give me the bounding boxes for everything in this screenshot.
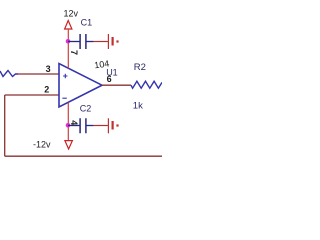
svg-text:C2: C2	[80, 103, 92, 113]
junction node bottom	[66, 123, 71, 128]
capacitor C1 left lead	[68, 41, 80, 43]
power +12v symbol triangle	[65, 21, 72, 30]
junction node top	[66, 39, 71, 44]
polarized capacitor plates (red, bottom)	[107, 118, 109, 133]
resistor R1 (partial, off-screen left)	[0, 71, 18, 77]
op-amp plus marker	[63, 74, 67, 78]
dangling pin dot (top)	[116, 40, 118, 42]
op-amp U1 triangle	[59, 64, 102, 108]
wire -12v to opamp pin4	[67, 102, 69, 140]
svg-text:4: 4	[69, 120, 79, 125]
svg-text:12v: 12v	[64, 8, 79, 18]
wire C2 to polarized cap	[94, 125, 108, 127]
polarized capacitor plates (red, top)	[107, 34, 109, 49]
wire output pin6	[102, 84, 131, 86]
svg-text:R2: R2	[134, 62, 146, 73]
resistor R2 (partial, off-screen right)	[131, 81, 162, 88]
power -12v symbol triangle	[65, 141, 73, 149]
wire feedback left vertical	[4, 95, 6, 156]
svg-text:1k: 1k	[133, 101, 143, 112]
svg-text:104: 104	[94, 58, 110, 70]
svg-text:C1: C1	[81, 18, 93, 28]
svg-text:7: 7	[69, 50, 79, 55]
capacitor C2 left lead	[68, 125, 80, 127]
op-amp minus marker	[62, 97, 66, 99]
capacitor C2 plates	[80, 118, 86, 133]
wire +12v to opamp pin7	[67, 30, 69, 69]
svg-text:2: 2	[44, 84, 49, 94]
svg-text:-12v: -12v	[33, 139, 51, 149]
wire feedback bottom horizontal	[5, 155, 162, 157]
wire C1 to polarized cap	[94, 41, 108, 43]
svg-text:3: 3	[46, 64, 51, 74]
capacitor C1 plates	[80, 34, 86, 49]
dangling pin dot (bottom)	[116, 124, 118, 126]
wire pin2 input	[5, 94, 59, 96]
svg-text:6: 6	[107, 74, 112, 84]
capacitor C1 right lead	[86, 41, 93, 43]
capacitor C2 right lead	[86, 125, 93, 127]
wire pin3 input	[18, 73, 59, 75]
